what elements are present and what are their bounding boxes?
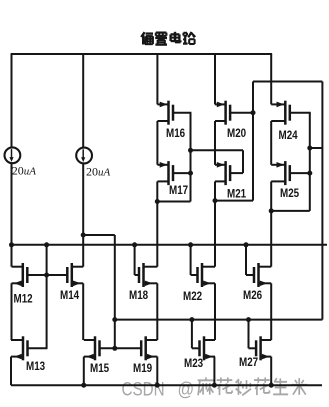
svg-text:M26: M26 [243, 289, 262, 302]
node M17 drain junction [155, 199, 160, 204]
wire gate feed line y148 [310, 147, 323, 149]
wire M15-M19 gate line [100, 347, 142, 349]
wire M24 gate lead [290, 112, 311, 114]
wire M24-M25 gate riser [309, 113, 311, 211]
junction gate riser / bias line C [188, 148, 193, 153]
wire current source I2 upper lead [82, 54, 84, 148]
wire M25 gate lead [290, 172, 311, 174]
wire M23 source to ground [213, 357, 215, 386]
wire M23 gate riser [191, 320, 193, 349]
svg-text:M27: M27 [239, 356, 258, 369]
wire M24 source feed from rail [270, 54, 272, 104]
wire M17 drain to M18 drain [156, 202, 158, 267]
junction bias line B / M23 gate riser [189, 317, 194, 322]
wire ground rail [11, 384, 322, 386]
svg-text:M17: M17 [169, 184, 188, 197]
wire M12-M14-M13 gate riser [46, 245, 48, 348]
wire M12-M14 gate line [27, 274, 67, 276]
ground junction at M27 source [269, 383, 274, 388]
current source I1 20uA [4, 147, 20, 163]
transistor M19 [141, 336, 157, 360]
wire M25 drain drop [270, 181, 272, 211]
node A / M22 gate riser junction [188, 242, 193, 247]
title text 偏置电路 (bias circuit) [141, 32, 195, 45]
junction M17 gate on riser [188, 171, 193, 176]
wire M16 drain to M17 source [156, 121, 158, 165]
wire M25 diode box bottom [271, 210, 310, 212]
wire node B riser down to bias line [114, 235, 116, 348]
svg-text:@: @ [178, 378, 195, 400]
wire M15 source to ground [83, 357, 85, 386]
wire M27 source to ground [270, 357, 272, 386]
wire M20 gate lead [230, 112, 253, 114]
node A junction at current source [9, 242, 14, 247]
svg-text:M14: M14 [60, 289, 80, 302]
wire M20 drain to M21 source [214, 121, 216, 165]
wire M12 drain riser [11, 245, 13, 267]
wire M22 source to M23 drain [214, 283, 216, 340]
watermark CSDN @麻花炒花生米 [122, 377, 308, 399]
wire current source I1 lower lead / node A drop [11, 163, 13, 245]
wire M17 gate lead [173, 172, 191, 174]
wire M22 gate riser [190, 245, 192, 275]
wire node B horizontal [83, 234, 115, 236]
wire M21 drain to M22 drain [214, 201, 216, 267]
wire bias line B [115, 319, 323, 321]
svg-text:M20: M20 [227, 127, 246, 140]
wire M14 source to M15 drain [82, 283, 84, 340]
wire M13 gate lead [28, 347, 48, 349]
svg-text:M24: M24 [279, 129, 299, 142]
transistor M20 [215, 101, 230, 125]
wire current source I2 lower lead / node B drop [82, 163, 84, 267]
wire M18 gate riser [134, 245, 136, 275]
transistor M22 [198, 263, 216, 287]
wire M25 drain to M26 drain [270, 211, 272, 267]
wire right edge bias drop [321, 82, 323, 320]
wire M27 gate riser [248, 320, 250, 349]
svg-text:M15: M15 [90, 362, 109, 375]
junction riser with M12-M14 gate line [44, 273, 49, 278]
wire gate feed line y82 [253, 81, 322, 83]
node B junction at current source [81, 233, 86, 238]
wire M21 diode box bottom [215, 200, 253, 202]
wire M21 gate lead [230, 172, 243, 174]
wire M13 source to ground [10, 357, 12, 386]
transistor M21 [215, 161, 230, 185]
wire M17 diode box bottom [157, 201, 190, 203]
svg-text:M18: M18 [129, 289, 148, 302]
svg-text:20uA: 20uA [86, 165, 111, 179]
junction M25 gate on riser [307, 171, 312, 176]
node A / M12-M14 gate riser junction [44, 242, 49, 247]
ground junction at M15 source [81, 383, 86, 388]
transistor M26 [254, 263, 271, 287]
wire M12 source to M13 drain [11, 283, 13, 340]
wire M24 drain to M25 source [270, 121, 272, 165]
node M21 drain junction [213, 198, 218, 203]
svg-text:M13: M13 [26, 360, 45, 373]
transistor M14 [67, 263, 83, 287]
ground junction at M19 source [155, 383, 160, 388]
svg-text:M21: M21 [227, 188, 246, 201]
wire node A rail [12, 244, 328, 246]
wire M16 source feed from rail [156, 54, 158, 104]
wire M20 source feed from rail [214, 54, 216, 104]
wire M18 source to M19 drain [156, 283, 158, 340]
transistor M25 [271, 161, 290, 185]
svg-text:M12: M12 [14, 293, 33, 306]
ground junction at M23 source [212, 383, 217, 388]
wire bias line C to M21 gate [191, 149, 244, 151]
wire current source I1 upper lead [11, 54, 13, 148]
svg-text:20uA: 20uA [12, 164, 37, 178]
transistor M24 [271, 101, 290, 125]
wire M26 source to M27 drain [270, 283, 272, 340]
node A / M26 gate riser junction [244, 242, 249, 247]
wire top supply rail [11, 53, 273, 55]
svg-text:M16: M16 [166, 127, 185, 140]
svg-text:M23: M23 [184, 357, 203, 370]
node B / M15 gate line junction [112, 346, 117, 351]
wire M20-M21 drain-tie riser [252, 82, 254, 201]
node B / bias line B junction [112, 317, 117, 322]
transistor M13 [11, 336, 28, 360]
transistor M23 [200, 336, 216, 360]
node A / M18 gate riser junction [132, 242, 137, 247]
transistor M16 [157, 101, 173, 125]
junction bias line B / M27 gate riser [246, 317, 251, 322]
node M25 drain junction [269, 208, 274, 213]
wire M16 gate lead [173, 112, 191, 114]
wire M26 gate riser [245, 245, 247, 275]
transistor M15 [84, 336, 100, 360]
transistor M27 [256, 336, 271, 360]
svg-text:M19: M19 [133, 362, 152, 375]
svg-text:M22: M22 [183, 290, 202, 303]
wire M17 drain drop [156, 181, 158, 201]
transistor M12 [12, 263, 28, 287]
wire M16-M17 gate riser [190, 113, 192, 202]
junction riser / line y148 [307, 146, 312, 151]
junction M20 gate on riser [251, 110, 256, 115]
wire M19 source to ground [156, 357, 158, 386]
transistor M18 [139, 263, 157, 287]
transistor M17 [157, 161, 173, 185]
wire M21 gate riser to bias line C [242, 150, 244, 173]
wire M21 drain drop [214, 181, 216, 200]
svg-text:M25: M25 [280, 187, 299, 200]
current source I2 20uA [76, 148, 92, 164]
